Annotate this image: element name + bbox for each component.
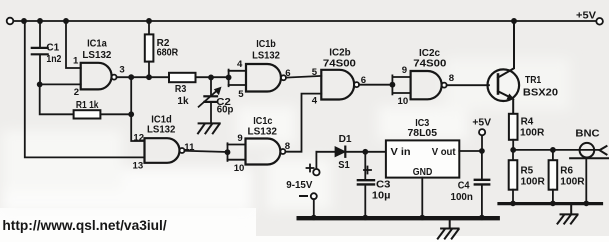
svg-text:13: 13 [133,161,144,172]
wire rail to pin1 of IC1a [66,21,81,68]
label IC2b pins [312,67,366,106]
IC2c output bubble [442,83,447,88]
node R4/R5 junction [510,147,516,153]
wire IC1b out to IC2b pin5 [286,76,321,78]
wire IC1b input bracket [229,70,246,87]
IC1a output bubble [112,75,117,80]
IC1d output bubble [180,148,185,153]
node R1/pin12 junction [128,111,134,117]
label IC2b [323,47,356,69]
svg-text:10: 10 [234,163,245,174]
svg-text:TR1: TR1 [525,75,542,86]
wire rail to C1 [39,21,41,47]
wire R4 bottom [512,140,514,150]
svg-text:1: 1 [73,55,79,66]
capacitor C4 [475,151,489,217]
label IC1b pins [237,59,291,100]
svg-text:+5V: +5V [472,117,491,128]
wire left vertical to IC1d pin13 [25,21,145,157]
label C1 value [46,43,61,65]
IC1b output bubble [281,75,286,80]
ground under main bar [438,220,459,238]
svg-text:100n: 100n [451,192,473,203]
terminal +5V right open circle [596,18,603,25]
label IC1b [252,39,280,61]
label R4 value [520,117,545,139]
label R3 value [175,84,189,107]
label R6 value [560,166,585,188]
svg-text:100R: 100R [521,177,546,188]
label IC2c [413,48,446,70]
label R5 value [521,166,546,188]
label IC1c [248,116,278,138]
svg-text:+5V: +5V [576,10,596,21]
svg-text:LS132: LS132 [82,50,111,61]
svg-text:74S00: 74S00 [413,59,446,70]
wire IC2b out to IC2c bracket [359,84,392,86]
svg-text:R6: R6 [560,166,573,177]
svg-text:R1 1k: R1 1k [76,100,99,111]
svg-text:LS132: LS132 [147,125,176,136]
svg-text:74S00: 74S00 [323,58,356,69]
resistor R4 [509,114,518,140]
wire down to R1 [40,84,74,114]
svg-text:4: 4 [237,59,243,70]
resistor R3 [169,73,196,82]
wire IC1a output net [117,76,169,78]
wire pin2 of IC1a [40,83,81,85]
wire main ground bar [299,216,498,220]
terminal - input [300,193,317,217]
svg-text:V in: V in [391,146,411,158]
svg-text:D1: D1 [339,134,352,145]
top +5V rail wire [13,20,596,22]
svg-text:8: 8 [285,141,291,152]
svg-text:BNC: BNC [575,128,599,139]
ground under C2 [198,123,220,133]
svg-text:9: 9 [402,65,407,76]
op-amp gate IC1c [246,139,281,165]
svg-text:6: 6 [361,75,366,86]
node IC1a out junction [128,74,134,80]
svg-text:BSX20: BSX20 [523,88,559,99]
terminal left open circle [7,18,14,25]
label D1 [338,134,352,171]
wire output net to BNC [513,149,599,151]
node C4 junction [479,148,485,154]
svg-text:V out: V out [432,146,456,158]
op-amp gate IC1d [145,138,180,163]
wire IC2b pin4 from IC1c out [285,94,321,152]
svg-text:C4: C4 [458,180,470,191]
svg-text:1k: 1k [177,96,189,107]
TR1 emitter with arrow [498,91,515,114]
op-amp gate IC2c [411,71,442,99]
svg-text:11: 11 [184,142,195,153]
svg-text:C3: C3 [376,179,391,190]
node R6 junction [550,147,556,153]
node top rail junction dots [21,18,517,24]
wire IC2c out to TR1 base [447,84,489,86]
transistor Q TR1 circle [488,69,520,101]
node R2 bottom junction [146,74,152,80]
label IC1a [82,39,111,62]
terminal + input [307,152,320,176]
label IC1a pins [73,55,125,97]
svg-text:12: 12 [133,133,144,144]
svg-text:R4: R4 [521,117,534,128]
voltage regulator IC3 box [386,140,459,177]
capacitor C3 [358,152,374,217]
svg-text:100R: 100R [560,177,585,188]
TR1 base bar [497,75,500,94]
svg-text:78L05: 78L05 [408,128,438,139]
svg-text:1n2: 1n2 [46,54,61,65]
svg-text:http://www.qsl.net/va3iul/: http://www.qsl.net/va3iul/ [2,218,167,233]
IC2b output bubble [354,82,359,87]
IC1c output bubble [280,149,285,154]
svg-text:100R: 100R [520,128,545,139]
label TR1 [523,75,559,99]
wire IC1d out to IC1c bracket [185,151,228,152]
op-amp gate IC1b [246,64,281,92]
svg-text:R5: R5 [521,166,534,177]
node C1/pin2 junction [37,82,43,88]
wire to pin12 of IC1d [131,114,144,141]
svg-text:R3: R3 [175,84,187,95]
BNC connector [570,143,609,203]
label R2 value [157,38,179,58]
wire C1 to pin2 node [39,55,41,84]
op-amp gate IC1a [81,63,112,90]
resistor R2 [145,21,154,77]
resistor R6 [549,150,558,203]
svg-text:IC1a: IC1a [87,39,107,50]
wire R3 to C2 node [196,76,229,78]
wire IC1c input bracket [228,143,246,161]
ground under right rail [558,205,578,224]
capacitor C2 (trimmer) [199,77,222,122]
terminal +5V out [479,129,485,151]
label IC1d pins [133,133,196,172]
svg-text:IC1b: IC1b [256,39,276,50]
wire bottom-right ground rail [499,202,602,205]
label IC3 [408,118,438,139]
label IC1c pins [234,133,291,174]
diode D1 [316,147,386,157]
svg-text:8: 8 [449,73,455,84]
svg-text:10µ: 10µ [372,190,391,201]
svg-text:10: 10 [398,96,409,107]
svg-text:3: 3 [119,65,124,76]
svg-text:IC2c: IC2c [419,48,440,59]
svg-text:6: 6 [285,68,290,79]
node D1/C3 junction [362,149,368,155]
node IC1c bracket junction [225,149,231,155]
svg-text:60p: 60p [217,104,234,115]
svg-text:5: 5 [312,67,318,78]
svg-text:C1: C1 [46,43,59,54]
svg-text:2: 2 [74,87,79,98]
wire IC3 GND pin [421,178,423,217]
svg-text:LS132: LS132 [248,127,278,138]
svg-text:9: 9 [237,133,242,144]
svg-text:4: 4 [312,95,318,106]
wire IC2c input bracket [392,75,410,94]
resistor R1 [74,110,101,118]
node IC1b bracket junction [226,75,232,81]
label IC2c pins [398,65,455,107]
label IC3 pins [391,146,457,178]
label IC1d [147,114,176,135]
svg-text:IC2b: IC2b [329,47,350,58]
capacitor C1 [32,48,48,54]
svg-text:IC1c: IC1c [253,116,272,127]
node IC2c bracket junction [390,82,396,88]
op-amp gate IC2b [321,70,354,100]
svg-text:9-15V: 9-15V [286,180,312,191]
svg-text:LS132: LS132 [252,50,280,61]
svg-text:S1: S1 [338,160,350,171]
wire IC3 Vout [459,150,482,152]
svg-text:680R: 680R [157,47,179,58]
label C4 value [451,180,473,203]
svg-text:GND: GND [413,166,433,178]
label C2 value [216,97,233,116]
wire R1 to node [100,113,131,115]
resistor R5 [509,150,518,203]
TR1 collector [498,21,514,78]
label C3 value [372,179,391,201]
node C2 junction [208,75,214,81]
wire feedback vertical [130,77,132,114]
svg-text:5: 5 [238,89,244,100]
